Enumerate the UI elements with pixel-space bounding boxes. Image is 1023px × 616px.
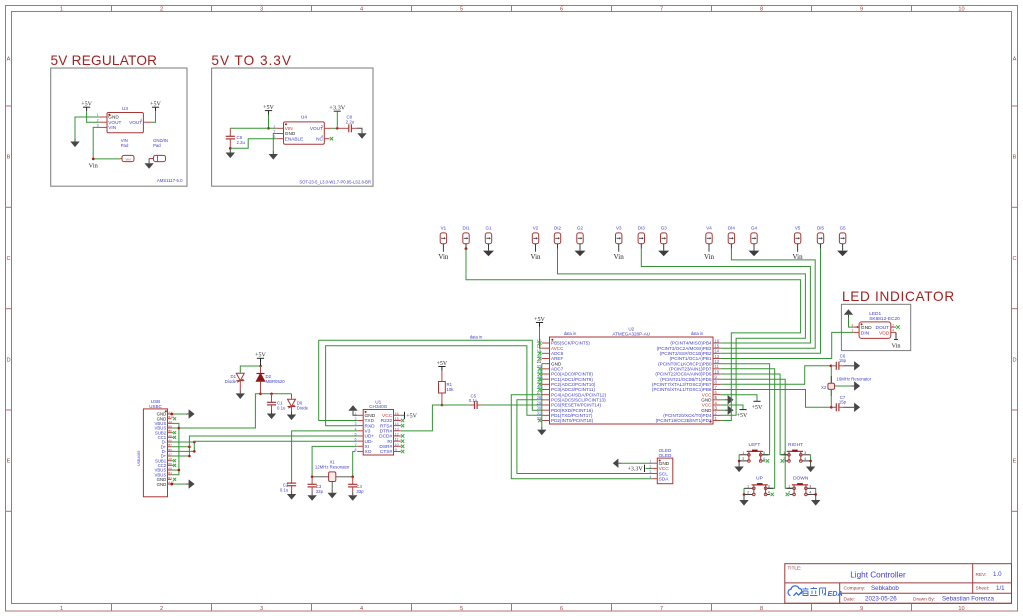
svg-text:EDA: EDA [828,589,843,598]
svg-text:Sheet:: Sheet: [976,586,990,592]
svg-text:Sebastian Forenza: Sebastian Forenza [942,595,994,602]
U2 pin 26 PC3 [542,389,550,391]
svg-text:DIN: DIN [861,330,870,336]
svg-text:Light Controller: Light Controller [850,571,906,580]
svg-text:+5V: +5V [534,317,545,323]
no-connect USBC CC1 [172,436,174,438]
wire LED1 VDD to Vin [895,332,897,339]
ground at G5 [842,249,844,251]
USBC pin A1 GND [168,413,172,415]
svg-text:USBC: USBC [149,404,162,409]
svg-text:Drawn By:: Drawn By: [913,596,935,602]
svg-text:V3: V3 [365,429,371,435]
svg-text:+5V: +5V [255,353,266,359]
svg-text:2: 2 [160,6,163,12]
wire VIN node to C9 [230,127,268,129]
svg-text:3: 3 [809,484,811,488]
ground at X1 center [331,490,333,493]
svg-text:B12: B12 [168,415,174,419]
svg-text:2.2u: 2.2u [346,120,355,125]
wire U1 XI to X1 [312,446,357,476]
title block [785,564,1012,604]
ground at G3 [663,249,665,251]
wire VBUS bus [172,423,179,474]
node Vin [92,158,95,161]
no-connect U4 NC [330,137,333,140]
U2 pin 1 PD3 [713,420,721,422]
wire C8 to ground [357,128,362,130]
U2 pin 30 PD0 [542,409,550,411]
node D- [193,441,196,444]
USBC pin B5 CC2 [168,464,172,466]
svg-text:CTS#: CTS# [380,449,393,455]
svg-text:+5V: +5V [752,405,763,411]
ground at C1 [271,411,273,414]
no-connect marks on unused U1 pins [401,419,404,422]
svg-text:15: 15 [395,417,399,421]
svg-text:UD-: UD- [365,439,374,445]
svg-text:GND: GND [659,461,670,467]
wire OLED GND to ground [621,462,652,464]
wire USBC GND A1 to ground [172,413,187,415]
U1 pin 15 R232 [394,419,401,421]
svg-text:SK6812-EC20: SK6812-EC20 [869,316,900,322]
wire U1 GND to ground [353,413,357,416]
U1 pin 5 UD+ [357,435,363,437]
svg-text:8: 8 [760,6,763,12]
svg-text:7: 7 [660,606,663,612]
svg-text:9: 9 [860,6,863,12]
svg-text:10k: 10k [447,387,455,392]
svg-text:16MHz Resonator: 16MHz Resonator [837,377,872,382]
USBC pin B1 GND [168,478,172,480]
U1 pin 2 TXD [357,419,363,421]
svg-text:G1: G1 [485,225,492,230]
svg-text:2: 2 [747,490,749,494]
section box 5V REGULATOR [51,68,187,186]
resistor R1 10k [441,371,443,382]
svg-text:VCC: VCC [382,413,393,419]
wire U2 PB7 to C6/X2 [721,366,831,385]
wire U2 PD6 to button RIGHT [721,374,788,455]
USBC pin B6 D- [168,450,172,452]
+5V supply at R1 [438,366,445,368]
wire DI4 to U2 PB3 [721,249,816,349]
USBC pin A12 GND [168,483,172,485]
U2 pin 32 PD2 [542,420,550,422]
svg-text:VIN: VIN [108,125,116,130]
svg-text:TITLE:: TITLE: [788,565,802,570]
svg-text:2.2u: 2.2u [237,140,246,145]
wire reset node to C5 [442,404,475,406]
svg-text:4: 4 [360,606,363,612]
wire DI1 to U2 PD3 [466,249,801,421]
svg-text:PD2(INT0/PCINT18): PD2(INT0/PCINT18) [551,418,594,423]
svg-text:GND: GND [157,482,167,487]
svg-text:UD+: UD+ [365,434,375,440]
U2 pin 2 PD4 [713,414,721,416]
svg-text:Diode: Diode [297,406,309,411]
svg-text:3: 3 [260,606,263,612]
svg-text:13: 13 [395,427,399,431]
svg-text:MBR0520: MBR0520 [266,379,286,384]
ground at U4 GND [272,151,274,154]
wire U2 PC4 SDA to OLED [511,395,652,479]
svg-text:6: 6 [355,438,357,442]
section box 5V TO 3.3V [212,68,373,186]
node D+ [188,455,191,458]
svg-text:4: 4 [809,490,811,494]
svg-text:Vin: Vin [530,253,541,261]
svg-text:XO: XO [365,449,372,455]
wire +5V rail to D1 [240,366,260,373]
svg-text:Pad: Pad [121,143,129,148]
svg-text:10: 10 [958,6,964,12]
ground at U2 GND pin3 [721,409,725,411]
svg-text:B: B [1013,155,1017,161]
svg-text:REV:: REV: [976,572,987,578]
wire X2 center to ground [835,385,852,387]
svg-text:1: 1 [788,484,790,488]
svg-text:LED INDICATOR: LED INDICATOR [842,289,955,304]
svg-text:4: 4 [649,475,651,479]
node reset [441,404,444,407]
no-connect USBC SUB1 [172,460,174,462]
U2 pin 3 GND [713,409,721,411]
svg-text:12: 12 [395,432,399,436]
wire +5V to U3 VOUT pin2 [87,111,100,122]
wire U4 GND to ground [273,134,276,152]
ground at C2 [291,491,293,494]
svg-text:G4: G4 [751,225,758,230]
U1 pin 11 RI [394,440,401,442]
U1 pin 14 RTS# [394,425,401,427]
wire USBC GND A12 to ground [172,483,187,485]
USBC pin B9 VBUS [168,427,172,429]
no-connect USBC B1 [173,478,176,481]
node C1 top [270,393,273,396]
svg-text:3: 3 [804,451,806,455]
svg-text:XI: XI [365,444,370,450]
svg-text:14: 14 [395,422,399,426]
svg-text:+5V: +5V [150,102,161,108]
svg-text:4: 4 [892,329,894,333]
svg-text:2: 2 [892,323,894,327]
svg-text:SDA: SDA [659,477,670,483]
svg-text:2: 2 [160,606,163,612]
ground at U2 GND pin5 [721,399,725,401]
U2 pin 24 PC1 [542,378,550,380]
USBC pin A8 SUB1 [168,460,172,462]
wire U2 GND to ground [541,364,543,427]
U2 pin 16 PB4 [713,342,721,344]
no-connect USBC B12 [173,417,176,420]
svg-text:5: 5 [355,432,357,436]
svg-text:ATMEGA328P-AU: ATMEGA328P-AU [612,332,650,337]
svg-text:+3.3V: +3.3V [627,466,643,472]
node C9 bottom [229,147,232,150]
+5V supply at U1 VCC [401,414,405,416]
+5V supply at U3 input [83,106,90,108]
+5V supply at U4 [265,110,272,112]
wire C9 bottom to U4 ENABLE [230,139,276,149]
no-connect USBC SUB2 [172,432,174,434]
regulator U4 [284,122,325,144]
svg-text:D: D [1012,357,1016,363]
U2 pin 28 PC5 [542,399,550,401]
easyeda logo [788,586,802,596]
svg-text:DTR#: DTR# [380,429,393,435]
svg-text:Pad: Pad [153,143,161,148]
+3.3V supply at OLED VCC [644,465,646,472]
svg-text:X2: X2 [821,385,827,390]
svg-text:2: 2 [355,417,357,421]
U2 pin 7 PB6 [713,389,721,391]
svg-text:VOUT: VOUT [310,126,323,131]
ground at GND/IN pad [148,160,150,163]
svg-text:data in: data in [564,331,577,336]
microcontroller U2 ATMEGA328P-AU [550,337,714,424]
svg-text:6: 6 [560,606,563,612]
wire U2 PD7 to button UP [721,369,775,489]
+5V supply at U2 AVCC [536,322,543,324]
U2 pin 11 PD7 [713,368,721,370]
ground at U2 GND [541,427,543,430]
U1 pin 7 XI [357,445,363,447]
U1 pin 6 UD- [357,440,363,442]
USBC pin A9 VBUS [168,469,172,471]
USBC pin A6 D- [168,441,172,443]
U1 pin 12 DCD# [394,435,401,437]
svg-text:1/1: 1/1 [996,585,1005,592]
ground at D0 [291,412,293,415]
svg-text:4: 4 [804,457,806,461]
svg-text:Vin: Vin [891,343,901,350]
svg-text:10: 10 [958,606,964,612]
U2 pin 13 PB1 [713,358,721,360]
svg-text:+5V: +5V [737,413,748,419]
svg-text:Company:: Company: [844,586,866,592]
U2 pin 4 VCC [713,404,721,406]
svg-text:B: B [7,155,11,161]
U2 pin 20 AREF [542,358,550,360]
svg-text:+5V: +5V [406,413,417,419]
svg-text:1: 1 [783,451,785,455]
svg-text:DOUT: DOUT [875,325,889,331]
+5V supply at U2 VCC pin4 [721,405,743,410]
ground at USBC A1 [186,413,189,415]
svg-text:G2: G2 [577,225,584,230]
ground at D1 [239,390,241,393]
ground at G1 [488,249,490,251]
svg-text:15p: 15p [839,400,847,405]
svg-text:1: 1 [742,451,744,455]
svg-text:A: A [7,57,11,63]
svg-text:0.1u: 0.1u [280,488,289,493]
svg-text:+3.3V: +3.3V [329,104,345,111]
svg-text:+5V: +5V [81,102,92,108]
wire U1 XO to X1 [353,452,356,477]
U2 pin 15 PB3 [713,347,721,349]
svg-text:3: 3 [260,6,263,12]
U1 pin 8 XO [357,450,363,452]
node U4 VIN [267,127,270,130]
U1 pin 9 CTS# [394,450,401,452]
ground at USBC A12 [186,483,189,485]
svg-text:1: 1 [60,606,63,612]
svg-text:VOUT: VOUT [129,120,142,125]
node C7 [830,406,833,409]
svg-text:5: 5 [460,606,463,612]
node VBUS upper [178,427,181,430]
resonator X2 16MHz [830,366,832,383]
svg-text:V2: V2 [533,225,539,230]
svg-text:G5: G5 [840,225,847,230]
svg-text:LEFT: LEFT [749,442,761,448]
U2 pin 6 VCC [713,394,721,396]
svg-text:AMS1117-5.0: AMS1117-5.0 [157,178,183,183]
svg-text:DI4: DI4 [728,225,736,230]
U2 pin 18 AVCC [542,347,550,349]
wire DI2 to U2 PD4 [558,249,806,416]
U1 pin 4 V3 [357,430,363,432]
ground at OLED GND [618,462,621,464]
wire D2 anode to C1 and D0 [261,393,292,395]
svg-text:VIN: VIN [125,157,130,161]
svg-text:GND: GND [861,325,872,331]
svg-text:SOT-23-5_L3.0-W1.7-P0.95-LS2.8: SOT-23-5_L3.0-W1.7-P0.95-LS2.8-BR [299,179,371,184]
U2 pin 8 PB7 [713,383,721,385]
+5V supply at D2 [257,357,264,359]
+3.3V supply [334,110,341,112]
svg-text:3: 3 [763,451,765,455]
U2 pin 12 PB0 [713,363,721,365]
no-connect USBC CC2 [172,464,174,466]
svg-text:1: 1 [60,6,63,12]
svg-text:7: 7 [660,6,663,12]
svg-text:DI1: DI1 [462,225,470,230]
svg-text:12MHz Resonator: 12MHz Resonator [315,465,350,470]
wire VBUS to D2 anode [179,394,261,428]
svg-text:Vin: Vin [438,253,449,261]
svg-text:U3: U3 [122,106,128,111]
USBC pin A7 D+ [168,455,172,457]
svg-text:DI3: DI3 [638,225,646,230]
svg-text:D: D [6,357,10,363]
svg-text:15p: 15p [839,358,847,363]
svg-text:UP: UP [756,475,763,481]
svg-text:4: 4 [763,457,765,461]
svg-text:RXD: RXD [365,423,376,429]
regulator U3 [107,113,143,133]
svg-text:DI2: DI2 [554,225,562,230]
svg-text:Diode: Diode [225,379,237,384]
svg-text:9: 9 [860,606,863,612]
USBC pin B4 VBUS [168,474,172,476]
wire +5V to AVCC [540,327,542,349]
ground at C8 [361,130,363,133]
U2 pin 5 GND [713,399,721,401]
wire U3 VOUT pin4 to +5V [151,111,156,122]
svg-text:USB4085: USB4085 [137,451,141,466]
svg-text:C: C [1012,256,1016,262]
svg-text:2: 2 [742,457,744,461]
U2 pin 9 PD5 [713,378,721,380]
node DI1 [465,247,468,250]
wire U2 PB6 to C7/X2 [721,390,832,408]
svg-text:data in: data in [691,331,704,336]
svg-text:TXD: TXD [365,418,375,424]
wire GND/IN pad to ground [148,159,150,161]
U2 pin 22 ADC7 [542,368,550,370]
svg-text:GND: GND [365,413,376,419]
USBC pin B8 SUB2 [168,432,172,434]
wire LED1 DIN to U2 PB1 [721,332,854,358]
U1 pin 3 RXD [357,425,363,427]
svg-text:ENABLE: ENABLE [285,136,304,141]
svg-text:16: 16 [395,412,399,416]
svg-text:data in: data in [470,334,483,339]
wire DI5 to U2 PB2 [721,249,821,354]
U2 pin 14 PB2 [713,352,721,354]
svg-text:(PCINT19/OC2B/INT1)PD3: (PCINT19/OC2B/INT1)PD3 [656,418,712,423]
svg-text:DSR#: DSR# [379,444,392,450]
svg-text:Vin: Vin [89,162,99,169]
ground at C7 [844,406,852,408]
wire D- to U1 UD- [194,440,357,443]
node VBUS lower [178,469,181,472]
USBC pin A5 CC1 [168,436,172,438]
+5V supply at U2 VCC pin6 [721,395,757,402]
U1 pin 1 GND [357,414,363,416]
svg-text:33p: 33p [356,489,364,494]
node U4 VOUT [336,127,339,130]
+5V supply at U3 output [152,106,159,108]
node C6 [830,365,833,368]
svg-text:B1: B1 [168,476,172,480]
U2 pin 23 PC0 [542,373,550,375]
wire U2 PD5 to button DOWN [721,379,793,488]
ground at LED1 GND [848,315,850,318]
svg-text:Vin: Vin [704,253,715,261]
svg-text:9: 9 [395,448,397,452]
U2 pin 19 ADC6 [542,352,550,354]
svg-text:10: 10 [395,443,399,447]
svg-text:U4: U4 [301,115,307,120]
wire LED1 GND to ground [849,318,854,328]
wire reset node to U1 DTR# [401,405,442,431]
ground at C4 [352,492,354,495]
wire USB D+ pair [172,447,190,456]
node X1 right [351,476,354,479]
wire U3 GND to ground [75,117,99,139]
node +5V rail [259,365,262,368]
wire U1 V3 to C2 [292,431,358,483]
svg-text:Vin: Vin [614,253,625,261]
svg-text:G3: G3 [661,225,668,230]
U2 pin 21 GND [542,363,550,365]
svg-text:DOWN: DOWN [793,475,809,481]
wire C5 to U2 PC6 RESET [481,404,542,406]
svg-text:5: 5 [460,6,463,12]
U2 pin 10 PD6 [713,373,721,375]
node X1 left [311,476,314,479]
USBC pin A4 VBUS [168,422,172,424]
no-connect marks on unused U2 left pins [538,341,541,344]
svg-text:OLED: OLED [659,453,672,458]
wire +5V to U4 VIN [269,115,277,129]
svg-text:Date:: Date: [844,596,855,602]
